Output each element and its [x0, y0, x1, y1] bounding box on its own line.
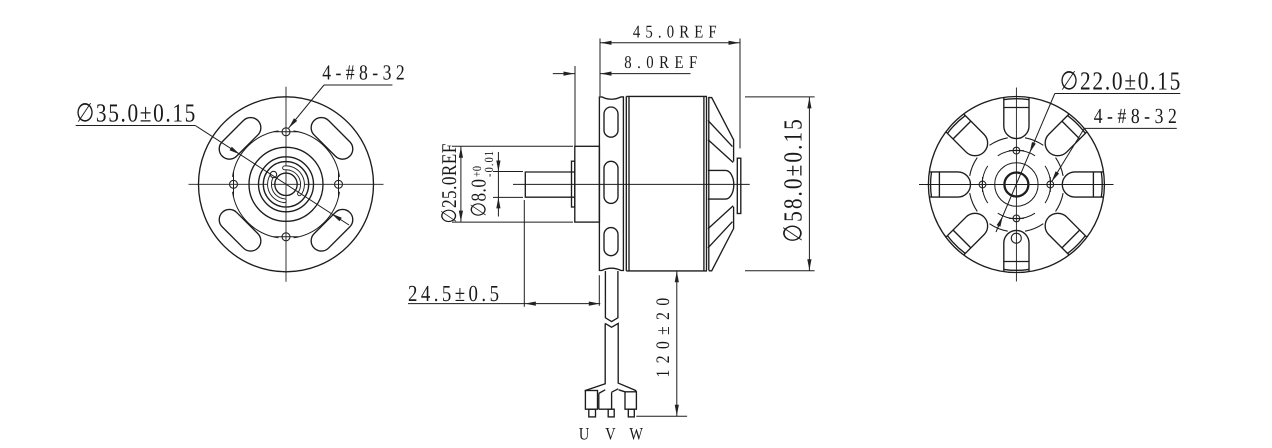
bolt circle dia22 arc 4 — [998, 150, 1035, 156]
leader 4-#8-32 (left view) — [324, 84, 392, 86]
bolt circle dia22 arc 2 — [998, 213, 1035, 219]
dim 120 +-20 — [636, 271, 687, 416]
motor shaft — [525, 96, 741, 271]
inner ring arc 6 (rear) — [990, 138, 1008, 146]
shaft bore circle — [275, 173, 297, 195]
bolt circle dia35 arc 1 — [294, 192, 340, 238]
svg-text:∅35.0±0.15: ∅35.0±0.15 — [76, 98, 196, 127]
wire fork middle prong — [599, 392, 612, 409]
svg-text:U: U — [579, 424, 590, 444]
inner ring arc 5 (rear) — [970, 158, 978, 176]
clip ear lobe — [270, 171, 276, 177]
left view: front face of motor — [189, 87, 384, 282]
inner ring arc 1 (rear) — [1056, 193, 1064, 211]
shaft hole (thick) — [1004, 173, 1028, 197]
centerline vertical (left view) — [285, 87, 287, 282]
bolt circle dia35 arc 4 — [294, 131, 340, 177]
retaining clip band B (left/bottom segment) — [269, 174, 284, 201]
centerline horizontal (right view) — [919, 184, 1114, 186]
bolt circle dia35 arc 2 — [233, 192, 279, 238]
svg-text:∅25.0REF: ∅25.0REF — [437, 144, 461, 224]
radial vent opening at 315 deg (rear bell) — [946, 114, 993, 161]
mounting hole #8-32 (1) front — [335, 180, 343, 188]
boss circle r37 — [249, 147, 323, 221]
dim 45.0REF — [599, 39, 601, 97]
mounting hole #8-32 (4) front — [282, 233, 290, 241]
inner ring arc 3 (rear) — [990, 224, 1008, 232]
dim dia25.0REF — [452, 146, 573, 222]
svg-text:4-#8-32: 4-#8-32 — [1094, 104, 1177, 128]
svg-text:V: V — [605, 424, 616, 444]
bell rim lines — [706, 97, 708, 271]
stator edge lines — [625, 96, 627, 271]
inner ring arc 4 (rear) — [970, 193, 978, 211]
bolt circle dia35 arc 3 — [233, 131, 279, 177]
mounting hole #8-32 (2) front — [230, 180, 238, 188]
shaft collar dia25 — [575, 146, 600, 222]
boss circle r22.7 — [263, 162, 308, 207]
connector W — [625, 392, 636, 409]
vent slot 3 (front plate) — [215, 205, 265, 255]
svg-text:120±20: 120±20 — [653, 298, 674, 378]
bell cone top — [709, 98, 734, 162]
balance hole in bottom opening — [1011, 233, 1021, 243]
plate slot bottom — [604, 228, 618, 256]
svg-text:8.0REF: 8.0REF — [624, 52, 697, 72]
radial vent opening at 135 deg (rear bell) — [1040, 208, 1087, 255]
outer bell circle — [928, 97, 1104, 273]
connector V — [599, 408, 612, 410]
svg-text:W: W — [629, 424, 643, 444]
svg-text:-0.01: -0.01 — [482, 151, 496, 177]
radial vent opening at 180 deg (rear bell) — [1004, 230, 1029, 271]
wire fork inner edges — [599, 389, 625, 394]
connector U — [585, 391, 597, 410]
radial vent opening at 0 deg (rear bell) — [1004, 97, 1029, 138]
bolt circle dia22 arc 1 — [1045, 166, 1051, 203]
plate slot middle — [604, 161, 618, 203]
centerline horizontal (left view) — [189, 183, 384, 185]
svg-text:∅58.0±0.15: ∅58.0±0.15 — [779, 119, 808, 242]
radial vent opening at 270 deg (rear bell) — [929, 172, 970, 197]
svg-text:4-#8-32: 4-#8-32 — [322, 61, 404, 85]
radial vent opening at 225 deg (rear bell) — [946, 208, 993, 255]
mounting hole #8-32 (2) rear — [979, 181, 986, 188]
shaft end housing bump — [708, 170, 734, 199]
inner ring arc 7 (rear) — [1025, 138, 1043, 146]
radial vent opening at 90 deg (rear bell) — [1062, 172, 1103, 197]
centerline vertical (right view) — [1015, 88, 1017, 282]
wire bundle upper — [585, 271, 636, 417]
vent slot 1 (front plate) — [307, 113, 357, 163]
mounting hole #8-32 (1) rear — [1047, 181, 1054, 188]
vent slot 4 (front plate) — [215, 113, 265, 163]
mounting hole #8-32 (3) rear — [1013, 147, 1020, 154]
dim dia8 with tolerance — [493, 152, 523, 217]
dim dia58 — [745, 97, 815, 271]
inner ring arc 8 (rear) — [1056, 158, 1064, 176]
svg-text:45.0REF: 45.0REF — [633, 21, 717, 41]
centerline horizontal (middle view) — [513, 183, 750, 185]
svg-text:24.5±0.5: 24.5±0.5 — [408, 281, 499, 306]
svg-text:∅8.0: ∅8.0 — [466, 179, 490, 217]
bolt circle dia22 arc 3 — [982, 166, 988, 203]
mounting hole #8-32 (4) rear — [1013, 215, 1020, 222]
dim 8.0REF — [553, 66, 691, 146]
dimension leader dia22.0 — [1055, 93, 1181, 95]
dimension leader dia35.0 — [76, 125, 196, 127]
bell end cap ring — [737, 158, 741, 213]
shaft washer ring — [572, 161, 575, 207]
leader 4-#8-32 (right view) — [1084, 127, 1177, 129]
dim 24.5 +-0.5 — [408, 200, 600, 307]
boss circle r27.5 — [259, 157, 314, 212]
inner ring arc 2 (rear) — [1025, 224, 1043, 232]
plate slot top — [604, 107, 618, 137]
right view: rear face of motor — [919, 88, 1114, 282]
wire bundle lower + break — [605, 323, 636, 391]
radial vent opening at 45 deg (rear bell) — [1040, 114, 1087, 161]
rotor can body — [626, 96, 707, 271]
mounting hole #8-32 (3) front — [282, 128, 290, 136]
bell cone bottom — [709, 207, 734, 271]
retaining clip band A (right/top segment) — [285, 168, 303, 194]
hub circle r21.7 — [995, 163, 1038, 206]
svg-text:∅22.0±0.15: ∅22.0±0.15 — [1060, 67, 1181, 96]
vent slot 2 (front plate) — [307, 205, 357, 255]
outer housing circle — [199, 97, 374, 272]
front plate with vent slots — [599, 97, 623, 271]
